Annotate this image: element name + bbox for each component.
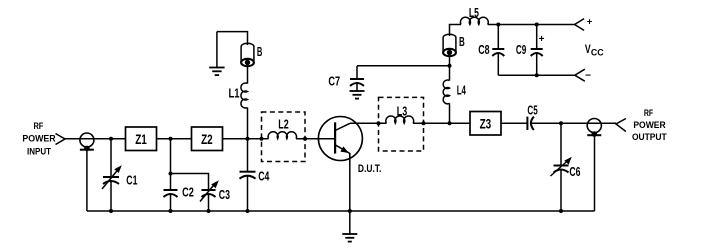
Vcc minus terminal arrow [575,69,585,81]
svg-text:C6: C6 [569,164,580,179]
svg-text:OUTPUT: OUTPUT [632,132,667,142]
svg-text:B: B [257,44,263,59]
svg-text:C7: C7 [328,73,340,88]
wire L4 to collector line [449,103,451,123]
node emitter rail [348,209,352,213]
capacitor C7 [350,66,364,91]
svg-text:C5: C5 [527,103,537,118]
wire C5 to output [561,122,616,124]
wire Z2 to L2 box [223,138,269,140]
node C6 bottom [559,209,563,213]
top left ground [209,32,224,76]
RF POWER INPUT label [22,121,56,157]
node L3 left [377,121,381,125]
svg-text:B: B [459,34,465,49]
svg-text:L1: L1 [229,86,240,101]
wire Z3 to C5 [501,122,527,124]
node C3 bottom [207,209,211,213]
impedance block Z2 [192,127,223,151]
wire ground to bead B1 [217,32,248,45]
node C1 top [109,137,113,141]
inductor L3 [386,116,414,123]
svg-text:POWER: POWER [633,120,666,130]
svg-text:Z2: Z2 [201,131,213,147]
svg-text:C9: C9 [516,42,526,57]
connector J1 input [80,133,94,151]
wire C3 jog [171,174,209,191]
node C1 bottom [109,209,113,213]
node C9 bottom [535,73,539,77]
capacitor C6 (variable) [551,123,572,211]
svg-text:POWER: POWER [22,134,56,144]
svg-text:RF: RF [644,108,654,118]
svg-text:L5: L5 [469,5,479,20]
wire input to Z1 [65,138,126,140]
label Vcc [585,44,604,58]
svg-text:−: − [585,71,591,82]
svg-text:+: + [587,17,593,28]
svg-text:C3: C3 [219,187,230,202]
node C2/C3 tie [169,172,173,176]
ground emitter [342,211,357,242]
node C2 branch [169,137,173,141]
wire input shield down [86,150,88,211]
svg-text:C2: C2 [182,184,194,199]
wire collector to L3 box [350,122,386,124]
node C8 top [496,23,500,27]
node C9 top [535,23,539,27]
wire Vcc plus rail [488,24,575,26]
wire top corner to bead B2 [450,25,462,37]
inductor L5 [460,17,488,24]
impedance block Z1 [126,127,157,151]
svg-text:C1: C1 [126,172,137,187]
svg-text:+: + [539,34,545,45]
svg-text:C8: C8 [478,42,489,57]
transistor Q1 D.U.T. [318,117,362,163]
node L2 left [260,137,264,141]
svg-text:CC: CC [591,48,604,59]
wire output shield down [594,135,596,211]
node L4 bottom [448,121,452,125]
svg-text:C4: C4 [258,169,270,184]
ground C7 [350,91,365,99]
Vcc plus terminal arrow [575,19,585,31]
capacitor C4 [240,139,256,211]
wire C2 branch down [170,139,172,190]
capacitor C2 [164,190,178,211]
capacitor C1 (variable) [102,139,122,211]
capacitor C5 [527,117,561,130]
node C6 top [559,121,563,125]
svg-text:L2: L2 [278,116,288,131]
svg-text:L3: L3 [397,103,407,118]
wire Vcc minus rail [498,74,575,76]
dashed box L2 [262,112,306,162]
svg-text:D.U.T.: D.U.T. [358,163,382,175]
ferrite bead B2 [443,34,456,56]
svg-text:Z1: Z1 [135,131,147,147]
wire emitter down [349,153,351,211]
svg-text:RF: RF [33,121,43,131]
impedance block Z3 [470,112,501,136]
wire bottom ground rail [87,210,595,212]
RF POWER OUTPUT label [632,108,667,142]
capacitor C3 (variable) [200,180,219,211]
node C2 bottom [169,209,173,213]
node L3 right [422,121,426,125]
node C4 bottom [246,209,250,213]
svg-text:Z3: Z3 [480,116,492,132]
output arrow [616,119,626,132]
wire L2 box to transistor base [296,138,335,140]
wire bead B1 to L1 [247,66,249,84]
ferrite bead B1 [241,43,254,66]
capacitor C8 [492,25,504,76]
wire L1 to main line [247,108,249,139]
node bead junction [448,64,452,68]
inductor L4 [443,80,449,104]
wire bead B2 to L4 [449,56,451,81]
inductor L2 [268,132,296,139]
capacitor C9 [531,25,543,76]
wire C7 to bead line [357,65,450,67]
svg-text:INPUT: INPUT [27,147,51,157]
inductor L1 [241,83,248,108]
wire Z1 to Z2 [157,138,192,140]
node L2 right [303,137,307,141]
wire L3 to Z3 [413,122,470,124]
input arrow [56,134,66,145]
dashed box L3 [379,97,424,151]
svg-text:L4: L4 [457,83,467,98]
node main L1/C4 [246,137,250,141]
connector J2 output [587,119,601,137]
